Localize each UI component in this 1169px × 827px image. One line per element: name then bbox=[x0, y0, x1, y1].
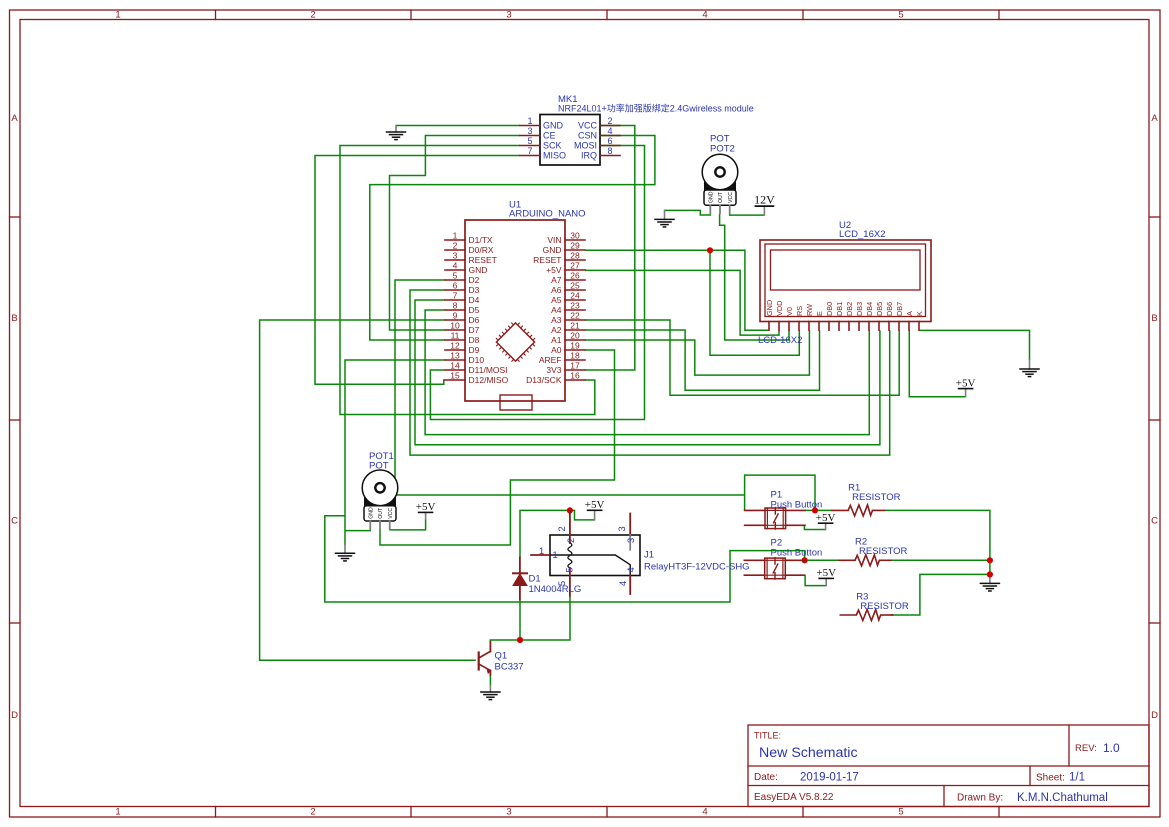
svg-text:J1: J1 bbox=[644, 550, 654, 561]
svg-text:3: 3 bbox=[506, 807, 511, 818]
svg-text:28: 28 bbox=[570, 251, 580, 261]
svg-text:D9: D9 bbox=[469, 345, 480, 355]
svg-text:1: 1 bbox=[527, 116, 532, 126]
svg-text:E: E bbox=[815, 311, 824, 316]
svg-text:10: 10 bbox=[450, 321, 460, 331]
svg-text:SCK: SCK bbox=[543, 141, 562, 151]
svg-text:27: 27 bbox=[570, 261, 580, 271]
svg-text:K: K bbox=[915, 311, 924, 316]
svg-text:OUT: OUT bbox=[378, 507, 384, 519]
svg-text:4: 4 bbox=[626, 567, 636, 572]
svg-text:DB2: DB2 bbox=[845, 302, 854, 316]
svg-text:DB0: DB0 bbox=[825, 302, 834, 316]
svg-text:D: D bbox=[1151, 710, 1158, 721]
svg-text:D1/TX: D1/TX bbox=[469, 235, 493, 245]
svg-text:Push Button: Push Button bbox=[771, 500, 823, 511]
svg-text:OUT: OUT bbox=[718, 191, 724, 203]
svg-text:1: 1 bbox=[115, 10, 120, 21]
svg-text:29: 29 bbox=[570, 241, 580, 251]
svg-text:+5V: +5V bbox=[816, 567, 836, 579]
svg-text:D12/MISO: D12/MISO bbox=[469, 375, 509, 385]
svg-text:MISO: MISO bbox=[543, 151, 566, 161]
svg-text:3: 3 bbox=[527, 126, 532, 136]
svg-text:3: 3 bbox=[617, 526, 627, 531]
svg-text:3: 3 bbox=[506, 10, 511, 21]
svg-text:RESISTOR: RESISTOR bbox=[860, 601, 909, 612]
svg-text:GND: GND bbox=[543, 121, 564, 131]
svg-text:A: A bbox=[1151, 113, 1158, 124]
svg-text:26: 26 bbox=[570, 271, 580, 281]
svg-text:2: 2 bbox=[453, 241, 458, 251]
svg-text:Push Button: Push Button bbox=[771, 548, 823, 559]
svg-text:A5: A5 bbox=[551, 295, 562, 305]
svg-text:D10: D10 bbox=[469, 355, 485, 365]
svg-text:POT2: POT2 bbox=[710, 144, 735, 155]
svg-text:VIN: VIN bbox=[547, 235, 561, 245]
svg-text:D5: D5 bbox=[469, 305, 480, 315]
svg-text:VCC: VCC bbox=[578, 121, 598, 131]
svg-text:6: 6 bbox=[607, 136, 612, 146]
svg-text:A3: A3 bbox=[551, 315, 562, 325]
svg-text:DB5: DB5 bbox=[875, 302, 884, 316]
svg-text:LCD_16X2: LCD_16X2 bbox=[839, 229, 885, 240]
svg-text:B: B bbox=[1151, 313, 1157, 324]
svg-text:DB7: DB7 bbox=[895, 302, 904, 316]
svg-text:2019-01-17: 2019-01-17 bbox=[800, 772, 859, 784]
svg-text:AREF: AREF bbox=[539, 355, 562, 365]
svg-text:24: 24 bbox=[570, 291, 580, 301]
svg-text:18: 18 bbox=[570, 351, 580, 361]
svg-text:New Schematic: New Schematic bbox=[759, 745, 858, 761]
svg-text:3: 3 bbox=[453, 251, 458, 261]
svg-text:8: 8 bbox=[453, 301, 458, 311]
svg-text:D8: D8 bbox=[469, 335, 480, 345]
svg-text:V0: V0 bbox=[785, 307, 794, 316]
svg-text:17: 17 bbox=[570, 361, 580, 371]
svg-text:21: 21 bbox=[570, 321, 580, 331]
svg-text:VDD: VDD bbox=[775, 301, 784, 316]
svg-text:BC337: BC337 bbox=[495, 662, 524, 673]
svg-text:Sheet:: Sheet: bbox=[1036, 773, 1065, 784]
svg-text:C: C bbox=[1151, 516, 1158, 527]
svg-text:RS: RS bbox=[795, 306, 804, 316]
svg-text:7: 7 bbox=[527, 146, 532, 156]
svg-text:MOSI: MOSI bbox=[574, 141, 597, 151]
svg-text:30: 30 bbox=[570, 231, 580, 241]
svg-text:4: 4 bbox=[618, 581, 628, 586]
svg-text:RW: RW bbox=[805, 304, 814, 316]
svg-text:EasyEDA V5.8.22: EasyEDA V5.8.22 bbox=[754, 792, 834, 803]
svg-text:2: 2 bbox=[566, 538, 576, 543]
svg-text:9: 9 bbox=[453, 311, 458, 321]
svg-text:5: 5 bbox=[453, 271, 458, 281]
svg-text:D: D bbox=[11, 710, 18, 721]
svg-text:+5V: +5V bbox=[816, 512, 836, 524]
svg-text:14: 14 bbox=[450, 361, 460, 371]
svg-text:4: 4 bbox=[702, 10, 707, 21]
svg-text:ARDUINO_NANO: ARDUINO_NANO bbox=[509, 209, 586, 220]
svg-text:D2: D2 bbox=[469, 275, 480, 285]
svg-text:RESET: RESET bbox=[533, 255, 561, 265]
svg-text:A6: A6 bbox=[551, 285, 562, 295]
svg-text:+5V: +5V bbox=[416, 501, 436, 513]
svg-text:RESISTOR: RESISTOR bbox=[859, 546, 908, 557]
svg-text:DB1: DB1 bbox=[835, 302, 844, 316]
svg-text:A: A bbox=[11, 113, 18, 124]
svg-text:1N4004RLG: 1N4004RLG bbox=[529, 584, 582, 595]
svg-text:6: 6 bbox=[453, 281, 458, 291]
svg-text:A4: A4 bbox=[551, 305, 562, 315]
svg-text:VCC: VCC bbox=[728, 192, 734, 203]
svg-text:DB6: DB6 bbox=[885, 302, 894, 316]
svg-text:D6: D6 bbox=[469, 315, 480, 325]
svg-text:12V: 12V bbox=[754, 193, 775, 207]
svg-text:D1: D1 bbox=[529, 574, 541, 585]
svg-text:D3: D3 bbox=[469, 285, 480, 295]
svg-text:12: 12 bbox=[450, 341, 460, 351]
svg-text:22: 22 bbox=[570, 311, 580, 321]
svg-text:A1: A1 bbox=[551, 335, 562, 345]
svg-text:1: 1 bbox=[115, 807, 120, 818]
svg-text:IRQ: IRQ bbox=[581, 151, 597, 161]
svg-text:2: 2 bbox=[310, 10, 315, 21]
svg-text:5: 5 bbox=[565, 567, 575, 572]
svg-text:REV:: REV: bbox=[1075, 743, 1097, 754]
svg-text:13: 13 bbox=[450, 351, 460, 361]
svg-text:GND: GND bbox=[765, 300, 774, 316]
svg-text:B: B bbox=[11, 313, 17, 324]
svg-text:GND: GND bbox=[368, 507, 374, 519]
svg-text:23: 23 bbox=[570, 301, 580, 311]
svg-text:RelayHT3F-12VDC-SHG: RelayHT3F-12VDC-SHG bbox=[644, 562, 750, 573]
svg-text:DB3: DB3 bbox=[855, 302, 864, 316]
svg-text:GND: GND bbox=[708, 191, 714, 203]
svg-text:TITLE:: TITLE: bbox=[754, 731, 781, 741]
svg-text:D11/MOSI: D11/MOSI bbox=[469, 365, 508, 375]
svg-text:C: C bbox=[11, 516, 18, 527]
svg-text:Date:: Date: bbox=[754, 772, 778, 783]
svg-text:LCD-16X2: LCD-16X2 bbox=[758, 335, 802, 346]
svg-text:2: 2 bbox=[607, 116, 612, 126]
svg-text:+5V: +5V bbox=[546, 265, 562, 275]
svg-text:15: 15 bbox=[450, 371, 460, 381]
svg-text:1: 1 bbox=[453, 231, 458, 241]
svg-text:4: 4 bbox=[607, 126, 612, 136]
svg-text:Drawn By:: Drawn By: bbox=[957, 793, 1003, 804]
svg-text:20: 20 bbox=[570, 331, 580, 341]
svg-text:CSN: CSN bbox=[578, 131, 597, 141]
svg-text:5: 5 bbox=[527, 136, 532, 146]
svg-text:25: 25 bbox=[570, 281, 580, 291]
svg-text:1.0: 1.0 bbox=[1103, 741, 1120, 755]
svg-text:4: 4 bbox=[453, 261, 458, 271]
svg-text:DB4: DB4 bbox=[865, 302, 874, 316]
svg-text:11: 11 bbox=[451, 331, 460, 341]
svg-text:+5V: +5V bbox=[956, 377, 976, 389]
svg-text:2: 2 bbox=[310, 807, 315, 818]
svg-text:19: 19 bbox=[570, 341, 580, 351]
svg-text:D7: D7 bbox=[469, 325, 480, 335]
svg-text:3V3: 3V3 bbox=[546, 365, 561, 375]
svg-text:2: 2 bbox=[557, 526, 567, 531]
svg-text:RESET: RESET bbox=[469, 255, 497, 265]
svg-text:A: A bbox=[905, 311, 914, 316]
svg-text:K.M.N.Chathumal: K.M.N.Chathumal bbox=[1017, 792, 1108, 804]
svg-text:A7: A7 bbox=[551, 275, 562, 285]
svg-text:A0: A0 bbox=[551, 345, 562, 355]
svg-text:NRF24L01+功率加强版绑定2.4Gwireless m: NRF24L01+功率加强版绑定2.4Gwireless module bbox=[558, 103, 754, 114]
svg-text:8: 8 bbox=[607, 146, 612, 156]
svg-text:D13/SCK: D13/SCK bbox=[526, 375, 562, 385]
svg-text:CE: CE bbox=[543, 131, 556, 141]
svg-text:A2: A2 bbox=[551, 325, 562, 335]
svg-text:4: 4 bbox=[702, 807, 707, 818]
svg-text:1: 1 bbox=[539, 546, 544, 556]
svg-text:VCC: VCC bbox=[388, 508, 394, 519]
svg-text:16: 16 bbox=[570, 371, 580, 381]
svg-text:5: 5 bbox=[898, 807, 903, 818]
svg-text:3: 3 bbox=[626, 538, 636, 543]
svg-text:7: 7 bbox=[453, 291, 458, 301]
svg-text:RESISTOR: RESISTOR bbox=[852, 492, 901, 503]
svg-text:+5V: +5V bbox=[585, 499, 605, 511]
svg-text:1/1: 1/1 bbox=[1069, 772, 1085, 784]
svg-text:Q1: Q1 bbox=[495, 651, 508, 662]
svg-text:D0/RX: D0/RX bbox=[469, 245, 494, 255]
svg-text:POT: POT bbox=[369, 461, 389, 472]
svg-text:GND: GND bbox=[543, 245, 562, 255]
svg-text:1: 1 bbox=[553, 550, 558, 560]
svg-text:D4: D4 bbox=[469, 295, 480, 305]
svg-text:GND: GND bbox=[469, 265, 488, 275]
svg-text:5: 5 bbox=[898, 10, 903, 21]
